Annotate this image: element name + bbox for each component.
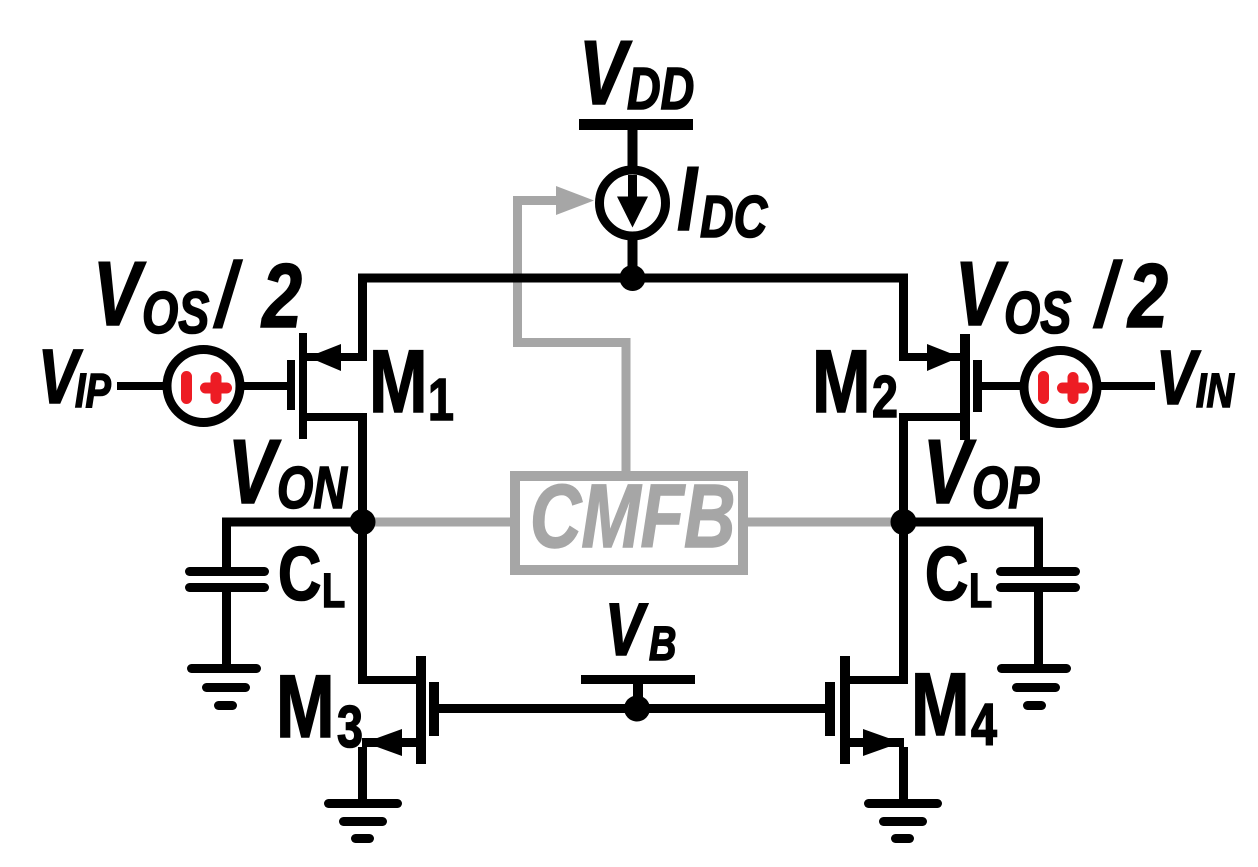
svg-text:M: M <box>812 331 871 431</box>
svg-text:L: L <box>969 565 992 618</box>
offset source right minus bar (red) <box>1038 371 1049 404</box>
wire M2 drain drop to VOP node <box>899 413 908 522</box>
node VON junction dot <box>350 509 376 535</box>
transistor M3 channel bar <box>416 656 426 764</box>
transistor M4 gate bar <box>825 682 835 736</box>
wire gate rail M3-M4 (VB) <box>439 704 825 713</box>
wire CMFB jog horizontal <box>513 338 631 347</box>
offset source left plus sign (red) <box>200 383 232 394</box>
wire CL left bottom lead <box>222 592 231 664</box>
svg-text:C: C <box>925 531 968 616</box>
svg-text:OP: OP <box>972 456 1040 521</box>
wire top rail <box>358 274 908 283</box>
transistor M3 source stub <box>362 738 416 747</box>
current source IDC arrow <box>628 175 637 201</box>
offset source VOS/2 right circle <box>1024 351 1097 424</box>
offset source VOS/2 left circle <box>167 350 240 423</box>
node tail junction dot <box>620 265 646 291</box>
VDD supply bar <box>579 119 693 130</box>
svg-text:V: V <box>955 244 1008 345</box>
wire CMFB output up from box top <box>622 342 631 471</box>
transistor M1 source arrow <box>308 344 341 371</box>
ground CL right <box>997 664 1071 673</box>
wire VB stub <box>633 684 643 709</box>
ground M3 <box>324 799 402 808</box>
wire right rail drop to M2 source <box>899 274 908 362</box>
svg-text:V: V <box>579 23 632 124</box>
wire CMFB sense left (from node VON to CMFB box) <box>362 518 510 527</box>
transistor M2 channel bar <box>960 334 970 440</box>
wire VON node to CL left <box>222 518 362 527</box>
wire VOP node to CL right <box>903 518 1043 527</box>
svg-text:2: 2 <box>260 246 302 347</box>
svg-text:DC: DC <box>700 185 769 250</box>
svg-text:OS: OS <box>1004 281 1071 346</box>
wire CMFB vertical riser <box>513 196 522 347</box>
svg-text:ON: ON <box>277 456 348 521</box>
transistor M2 gate bar <box>973 360 982 412</box>
transistor M1 gate bar <box>287 360 295 410</box>
capacitor CL right plates <box>996 567 1080 576</box>
wire M1 drain drop to VON node <box>358 413 367 522</box>
svg-text:M: M <box>369 331 428 431</box>
transistor M1 drain stub <box>307 413 367 421</box>
capacitor CL left plates <box>185 567 269 576</box>
transistor M1 source stub <box>307 353 367 361</box>
offset source right plus sign (red) <box>1057 383 1089 394</box>
offset source left minus bar (red) <box>181 371 192 404</box>
transistor M4 channel bar <box>840 656 850 764</box>
ground M4 <box>864 799 942 808</box>
svg-text:2: 2 <box>1126 246 1168 347</box>
svg-text:L: L <box>322 565 345 618</box>
transistor M3 drain stub <box>358 676 416 684</box>
transistor M2 source arrow <box>927 344 960 371</box>
svg-text:DD: DD <box>627 57 694 122</box>
arrowhead CMFB control into IDC <box>556 186 594 215</box>
wire CL right top lead <box>1034 518 1043 568</box>
wire CL right bottom lead <box>1034 592 1043 664</box>
VB supply bar <box>581 675 695 684</box>
transistor M4 drain stub <box>850 676 908 684</box>
wire left rail drop to M1 source <box>358 274 367 362</box>
current source IDC circle <box>600 170 666 236</box>
transistor M2 drain stub <box>899 413 961 421</box>
wire offset source to VIN <box>1101 382 1155 390</box>
wire IDC to tail node <box>628 240 638 278</box>
wire CL left top lead <box>222 518 231 568</box>
transistor M2 source stub <box>899 353 961 361</box>
svg-text:IN: IN <box>1196 365 1235 418</box>
CMFB block box <box>515 476 743 570</box>
wire CMFB to current source <box>517 196 558 205</box>
svg-text:OS: OS <box>142 281 209 346</box>
svg-text:C: C <box>278 531 321 616</box>
wire VON node down to M3 drain <box>358 522 367 684</box>
node VOP junction dot <box>891 509 917 535</box>
svg-text:4: 4 <box>971 693 997 758</box>
svg-text:V: V <box>93 244 146 345</box>
svg-text:V: V <box>923 422 976 523</box>
node VB junction dot <box>624 696 650 722</box>
svg-text:CMFB: CMFB <box>530 467 735 567</box>
transistor M4 source arrow <box>863 729 901 756</box>
wire VIP to offset source <box>117 382 163 390</box>
svg-text:V: V <box>228 422 281 523</box>
wire M3 source drop <box>358 747 367 799</box>
transistor M1 channel bar <box>299 333 307 439</box>
wire VOP node down to M4 drain <box>899 522 908 684</box>
svg-text:M: M <box>911 654 970 754</box>
wire CMFB sense right (from CMFB box to node VOP) <box>748 518 903 527</box>
svg-text:B: B <box>649 618 676 671</box>
svg-text:3: 3 <box>337 695 363 760</box>
svg-text:1: 1 <box>428 368 454 433</box>
svg-text:V: V <box>1156 334 1202 421</box>
svg-text:I: I <box>677 149 699 250</box>
transistor M4 source stub <box>850 738 904 747</box>
svg-text:V: V <box>605 590 649 672</box>
wire M4 source drop <box>899 747 908 799</box>
transistor M3 source arrow <box>365 729 402 756</box>
transistor M3 gate bar <box>429 682 439 736</box>
wire M2 gate to offset source <box>982 382 1024 390</box>
svg-text:IP: IP <box>75 365 111 418</box>
svg-text:M: M <box>276 656 335 756</box>
svg-text:2: 2 <box>872 365 898 430</box>
wire offset source to M1 gate <box>244 382 287 390</box>
wire VDD to IDC <box>628 130 638 172</box>
ground CL left <box>187 664 261 673</box>
